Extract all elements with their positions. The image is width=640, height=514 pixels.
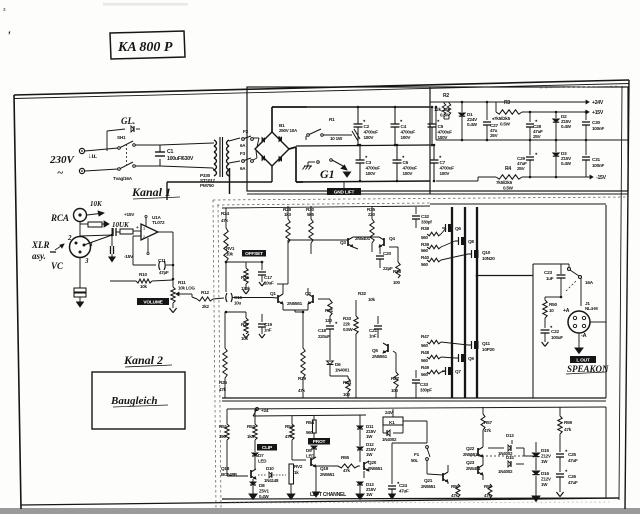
svg-text:asy.: asy. bbox=[32, 251, 46, 261]
svg-text:D16: D16 bbox=[541, 471, 549, 476]
wire offset node bbox=[225, 261, 228, 264]
svg-text:C25: C25 bbox=[568, 452, 576, 457]
wire C23 top bbox=[533, 263, 569, 265]
svg-text:R32: R32 bbox=[358, 291, 366, 296]
svg-text:C7: C7 bbox=[440, 160, 446, 165]
svg-text:Q5: Q5 bbox=[372, 348, 378, 353]
wire switch to C1 bbox=[135, 144, 160, 146]
fuse F output 16A bbox=[568, 264, 570, 267]
svg-text:↓u.: ↓u. bbox=[88, 152, 97, 160]
svg-text:10: 10 bbox=[549, 308, 554, 313]
wire bridge + output bbox=[271, 107, 273, 132]
svg-text:10k LOG: 10k LOG bbox=[178, 286, 196, 291]
svg-text:10k: 10k bbox=[140, 284, 148, 289]
svg-text:230V: 230V bbox=[49, 154, 76, 166]
zener diode D1 bbox=[461, 102, 463, 112]
capacitor C3 4700uF bbox=[359, 145, 361, 160]
wire vas column bbox=[371, 243, 373, 252]
speaker section box bbox=[532, 264, 534, 398]
wire xlr pin3 down bbox=[79, 258, 81, 288]
svg-text:10UK: 10UK bbox=[112, 221, 130, 229]
svg-text:10k: 10k bbox=[226, 252, 234, 257]
svg-text:C2: C2 bbox=[364, 124, 370, 129]
svg-text:3: 3 bbox=[143, 226, 145, 231]
wire +V bus bbox=[307, 106, 430, 108]
svg-text:4700uF: 4700uF bbox=[401, 130, 416, 135]
svg-text:R24: R24 bbox=[221, 211, 229, 216]
mosfet Q6 bbox=[448, 224, 453, 232]
svg-text:VOLUME: VOLUME bbox=[143, 300, 163, 306]
svg-text:Q4: Q4 bbox=[389, 236, 395, 241]
svg-text:22pF: 22pF bbox=[383, 266, 393, 271]
capacitor C30 bbox=[585, 112, 587, 120]
svg-text:R50: R50 bbox=[549, 302, 557, 307]
svg-text:Z5V1: Z5V1 bbox=[259, 489, 270, 494]
svg-text:D7: D7 bbox=[258, 453, 264, 458]
svg-text:RV2: RV2 bbox=[294, 464, 303, 469]
svg-text:D13: D13 bbox=[506, 433, 514, 438]
svg-text:Q20: Q20 bbox=[368, 460, 377, 465]
svg-text:47k: 47k bbox=[484, 428, 492, 433]
svg-text:-A: -A bbox=[581, 333, 587, 339]
wire R35 column bbox=[355, 334, 357, 398]
svg-text:220uF: 220uF bbox=[318, 334, 330, 339]
svg-text:VC: VC bbox=[51, 261, 64, 271]
svg-text:C23: C23 bbox=[544, 270, 552, 275]
svg-text:R2: R2 bbox=[443, 93, 449, 99]
svg-text:47k: 47k bbox=[343, 468, 351, 473]
rail output column 1 bbox=[451, 207, 453, 398]
rail +24V bbox=[583, 101, 589, 103]
wire amp bottom rail bbox=[222, 397, 606, 399]
svg-text:RCA: RCA bbox=[50, 213, 69, 223]
svg-text:C4: C4 bbox=[401, 124, 407, 129]
capacitor C4 4700uF bbox=[394, 107, 396, 124]
svg-text:R33: R33 bbox=[343, 316, 351, 321]
svg-text:10N20: 10N20 bbox=[482, 256, 495, 261]
label PROT bbox=[308, 438, 330, 445]
svg-text:RV1: RV1 bbox=[226, 246, 235, 251]
power supply enclosure box bbox=[247, 87, 628, 191]
svg-text:C30: C30 bbox=[592, 120, 600, 125]
svg-text:': ' bbox=[7, 28, 11, 43]
svg-text:R3: R3 bbox=[504, 100, 510, 106]
zener diode D3 bbox=[555, 140, 557, 152]
svg-text:3: 3 bbox=[84, 257, 89, 265]
wire protection to zeners bbox=[524, 455, 536, 457]
svg-text:2N5551: 2N5551 bbox=[421, 484, 436, 489]
svg-text:330pf: 330pf bbox=[421, 220, 432, 225]
svg-text:C24: C24 bbox=[399, 483, 407, 488]
wire bridge - output bbox=[289, 147, 296, 149]
svg-text:R49: R49 bbox=[421, 365, 429, 370]
wire secondary top bbox=[229, 138, 240, 141]
svg-text:Q3: Q3 bbox=[340, 240, 346, 245]
svg-text:Q9: Q9 bbox=[468, 356, 474, 361]
rail -15V bbox=[587, 176, 593, 178]
wire diff pair emitters bbox=[282, 304, 284, 310]
label VOLUME bbox=[137, 298, 169, 305]
svg-text:47uF: 47uF bbox=[568, 458, 578, 463]
svg-text:47k: 47k bbox=[484, 493, 492, 498]
svg-text:R40: R40 bbox=[421, 255, 429, 260]
svg-text:0.5W: 0.5W bbox=[343, 327, 354, 332]
svg-text:47k: 47k bbox=[451, 493, 459, 498]
svg-text:R31: R31 bbox=[325, 308, 333, 313]
svg-text:4700uF: 4700uF bbox=[440, 166, 455, 171]
svg-text:G1: G1 bbox=[320, 167, 335, 181]
Kanal 2 box Baugleich bbox=[92, 372, 185, 429]
svg-text:PM750: PM750 bbox=[200, 183, 214, 188]
svg-text:C5: C5 bbox=[438, 124, 444, 129]
svg-text:2N5551: 2N5551 bbox=[320, 472, 335, 477]
capacitor C24 47uF bbox=[391, 443, 393, 484]
svg-text:1k8: 1k8 bbox=[247, 434, 255, 439]
svg-text:22k: 22k bbox=[343, 322, 351, 327]
svg-text:7k5//2k5: 7k5//2k5 bbox=[496, 180, 513, 185]
wire bridge AC in bbox=[257, 138, 259, 147]
svg-text:Baugleich: Baugleich bbox=[110, 395, 157, 407]
svg-text:4700uF: 4700uF bbox=[403, 166, 418, 171]
svg-text:25V: 25V bbox=[517, 166, 526, 171]
svg-text:47k: 47k bbox=[564, 427, 572, 432]
svg-text:R12: R12 bbox=[201, 290, 209, 295]
mosfet Q8 bbox=[461, 237, 466, 245]
svg-text:L OUT: L OUT bbox=[576, 358, 590, 364]
svg-text:47uF: 47uF bbox=[568, 480, 578, 485]
svg-text:C1: C1 bbox=[167, 149, 173, 155]
svg-text:XLR: XLR bbox=[31, 240, 50, 250]
label GND LIFT bbox=[327, 188, 361, 195]
svg-text:C31: C31 bbox=[592, 157, 600, 162]
svg-text:Q19: Q19 bbox=[320, 466, 329, 471]
svg-text:R39: R39 bbox=[421, 242, 429, 247]
svg-text:~: ~ bbox=[57, 167, 64, 179]
svg-text:0.4W: 0.4W bbox=[561, 124, 572, 129]
svg-text:250V 10A: 250V 10A bbox=[279, 128, 298, 133]
svg-text:R1: R1 bbox=[329, 117, 335, 122]
wire dashed zener link bbox=[470, 455, 524, 457]
svg-text:100: 100 bbox=[391, 388, 399, 393]
capacitor C29 bbox=[529, 140, 531, 155]
svg-text:560: 560 bbox=[421, 248, 429, 253]
wire feedback bbox=[133, 235, 141, 237]
svg-text:C20: C20 bbox=[383, 251, 391, 256]
svg-text:1W: 1W bbox=[366, 492, 373, 497]
svg-text:R54: R54 bbox=[306, 420, 314, 425]
svg-text:1W: 1W bbox=[366, 452, 373, 457]
svg-text:0.4W: 0.4W bbox=[561, 161, 572, 166]
svg-text:1nF: 1nF bbox=[264, 328, 272, 333]
capacitor C7 4700uF bbox=[433, 145, 435, 160]
svg-text:K1: K1 bbox=[389, 420, 395, 425]
svg-text:Tvag/16A: Tvag/16A bbox=[113, 176, 133, 181]
svg-text:100V: 100V bbox=[364, 135, 375, 140]
svg-text:1W: 1W bbox=[541, 482, 548, 487]
svg-text:R59: R59 bbox=[564, 420, 572, 425]
svg-text:2N5551: 2N5551 bbox=[368, 466, 383, 471]
svg-text:25V: 25V bbox=[490, 133, 499, 138]
svg-text:Q11: Q11 bbox=[482, 341, 490, 346]
svg-text:Kanal 2: Kanal 2 bbox=[123, 353, 163, 367]
svg-text:F1: F1 bbox=[414, 452, 420, 457]
svg-text:-15V: -15V bbox=[596, 175, 607, 181]
mosfet Q11 10P20 bbox=[474, 341, 479, 349]
wire bridge 0V bbox=[271, 166, 273, 182]
capacitor C25 47uF bbox=[556, 453, 564, 455]
capacitor C27 bbox=[486, 102, 488, 120]
svg-text:10K: 10K bbox=[90, 200, 103, 208]
svg-text:C26: C26 bbox=[568, 474, 576, 479]
svg-text:GND LIFT: GND LIFT bbox=[334, 190, 355, 196]
svg-text:0.5W: 0.5W bbox=[500, 122, 511, 127]
svg-text:R25: R25 bbox=[219, 380, 227, 385]
svg-text:+24V: +24V bbox=[592, 100, 604, 106]
svg-text:1N4148: 1N4148 bbox=[264, 478, 279, 483]
wire output node bbox=[477, 275, 533, 277]
svg-text:47k: 47k bbox=[221, 218, 229, 223]
capacitor shunt input bbox=[111, 242, 113, 246]
mosfet Q10 10N20 bbox=[474, 250, 479, 258]
wire input node bbox=[84, 235, 112, 245]
transformer T1 P330 ST1017 PM750 bbox=[214, 140, 217, 146]
diode D6 1N4001 bbox=[329, 338, 331, 360]
svg-text:2: 2 bbox=[143, 234, 145, 239]
svg-text:100V: 100V bbox=[366, 171, 377, 176]
svg-text:R47: R47 bbox=[421, 334, 429, 339]
svg-text:560: 560 bbox=[421, 262, 429, 267]
wire mains L bbox=[85, 148, 118, 151]
svg-text:TL072: TL072 bbox=[152, 220, 165, 225]
wire bottom right vertical bbox=[605, 407, 607, 498]
svg-text:100V: 100V bbox=[403, 171, 414, 176]
wire secondary bottom down bbox=[229, 168, 231, 194]
svg-text:330pF: 330pF bbox=[420, 388, 432, 393]
svg-text:50L: 50L bbox=[411, 458, 419, 463]
svg-text:560: 560 bbox=[421, 235, 429, 240]
svg-text:47k: 47k bbox=[298, 388, 306, 393]
svg-text:47uF: 47uF bbox=[399, 489, 409, 494]
svg-text:Q22: Q22 bbox=[466, 446, 475, 451]
zener diode D2 bbox=[555, 112, 557, 118]
capacitor C22 100uF bbox=[544, 318, 546, 328]
svg-text:KA 800 P: KA 800 P bbox=[117, 40, 173, 55]
svg-text:4700uF: 4700uF bbox=[438, 130, 453, 135]
svg-text:LEFT CHANNEL: LEFT CHANNEL bbox=[310, 492, 346, 498]
svg-text:2k2: 2k2 bbox=[202, 304, 210, 309]
svg-text:120: 120 bbox=[325, 318, 333, 323]
svg-text:1nF: 1nF bbox=[369, 334, 377, 339]
wire 0V mid rail bbox=[436, 139, 628, 141]
svg-text:100uF/630V: 100uF/630V bbox=[167, 156, 194, 162]
wire +24 sub rail bbox=[253, 415, 366, 416]
capacitor C26 47uF bbox=[556, 473, 564, 475]
svg-text:Q1: Q1 bbox=[270, 291, 276, 296]
capacitor C1 bbox=[159, 145, 161, 152]
svg-text:10k: 10k bbox=[368, 297, 376, 302]
svg-text:1k: 1k bbox=[294, 470, 299, 475]
svg-text:4700uF: 4700uF bbox=[364, 130, 379, 135]
svg-text:+15V: +15V bbox=[592, 110, 604, 116]
capacitor C5 4700uF bbox=[431, 107, 433, 124]
svg-text:R38: R38 bbox=[421, 226, 429, 231]
svg-text:D10: D10 bbox=[266, 466, 274, 471]
svg-text:1uF: 1uF bbox=[546, 276, 554, 281]
wire speakon ground bbox=[578, 333, 580, 348]
svg-text:47pF: 47pF bbox=[159, 270, 169, 275]
svg-text:390: 390 bbox=[219, 434, 227, 439]
svg-text:100uF: 100uF bbox=[551, 335, 563, 340]
svg-text:100: 100 bbox=[393, 280, 401, 285]
svg-text:C18: C18 bbox=[318, 328, 326, 333]
wire op-amp output bbox=[158, 231, 173, 233]
svg-text:560: 560 bbox=[421, 372, 429, 377]
svg-text:0.4W: 0.4W bbox=[259, 494, 270, 499]
svg-text:1W: 1W bbox=[366, 434, 373, 439]
ground arrow C17 bbox=[243, 290, 246, 294]
svg-text:C22: C22 bbox=[551, 329, 559, 334]
svg-text:Q8: Q8 bbox=[468, 239, 474, 244]
ground arrow xlr bbox=[77, 302, 84, 307]
title box KA 800 P bbox=[110, 31, 185, 59]
svg-text:F2: F2 bbox=[243, 129, 249, 134]
svg-text:100V: 100V bbox=[438, 135, 449, 140]
diode D14 1N4002 bbox=[387, 430, 390, 436]
dotted scan line bottom bbox=[230, 502, 610, 503]
svg-text:Q23: Q23 bbox=[466, 460, 475, 465]
svg-text:560: 560 bbox=[306, 430, 314, 435]
svg-text:+15V: +15V bbox=[124, 212, 135, 217]
svg-text:Q18: Q18 bbox=[221, 466, 230, 471]
svg-text:100nF: 100nF bbox=[592, 126, 604, 131]
svg-text:GL.: GL. bbox=[121, 116, 135, 126]
svg-text:SH1: SH1 bbox=[117, 135, 126, 140]
svg-text:1W: 1W bbox=[541, 459, 548, 464]
svg-text:+A: +A bbox=[563, 308, 570, 314]
svg-text:LED: LED bbox=[258, 459, 267, 464]
wire to speakon bbox=[580, 278, 582, 306]
svg-text:C33: C33 bbox=[420, 382, 428, 387]
svg-text:R11: R11 bbox=[178, 280, 186, 285]
wire Q20 emitter bbox=[363, 471, 365, 478]
terminal 230V line bbox=[79, 148, 84, 153]
svg-text:Q7: Q7 bbox=[455, 369, 461, 374]
svg-text:10uF: 10uF bbox=[264, 281, 274, 286]
svg-text:R57: R57 bbox=[484, 420, 492, 425]
svg-text:D8: D8 bbox=[259, 483, 265, 488]
svg-text:2N5551: 2N5551 bbox=[372, 354, 388, 359]
svg-text:16A: 16A bbox=[585, 280, 594, 285]
rail +15V bbox=[583, 111, 589, 113]
capacitor C6 4700uF bbox=[396, 145, 398, 160]
wire C1 to transformer bbox=[160, 143, 213, 145]
svg-text:CLIP: CLIP bbox=[262, 445, 273, 451]
svg-text:1N4002: 1N4002 bbox=[382, 437, 397, 442]
svg-text:10u: 10u bbox=[234, 301, 242, 306]
svg-text:Q6: Q6 bbox=[455, 226, 461, 231]
capacitor C2 4700uF bbox=[357, 107, 359, 124]
electrolytic cap input ground bbox=[74, 288, 86, 292]
wire Q2 base bbox=[307, 288, 309, 294]
svg-text:100: 100 bbox=[343, 392, 351, 397]
ground lift chassis G1 bbox=[304, 165, 312, 167]
svg-text:NL4-M: NL4-M bbox=[585, 306, 598, 311]
svg-text:4700uF: 4700uF bbox=[366, 166, 381, 171]
svg-text:0.4W: 0.4W bbox=[467, 122, 478, 127]
svg-text:2N5551: 2N5551 bbox=[287, 301, 303, 306]
channel dashed border bbox=[213, 197, 628, 200]
svg-text:10P20: 10P20 bbox=[482, 347, 495, 352]
mosfet Q7 bbox=[448, 367, 453, 375]
scanner edge band bottom bbox=[0, 508, 640, 514]
svg-text:Kanal 1: Kanal 1 bbox=[131, 185, 171, 199]
ground arrow input bbox=[109, 257, 115, 262]
xlr pin arrow bbox=[55, 244, 64, 250]
wire relay to C24 bbox=[392, 442, 427, 444]
svg-text:25V: 25V bbox=[533, 134, 542, 139]
wire -V bus bbox=[296, 181, 430, 182]
ground lift switch bbox=[317, 161, 320, 164]
svg-text:7k5//2k5: 7k5//2k5 bbox=[494, 116, 511, 121]
svg-text:1N4001: 1N4001 bbox=[335, 368, 350, 373]
svg-text:C17: C17 bbox=[264, 275, 272, 280]
ground arrow at lift bbox=[332, 160, 343, 166]
svg-text:100V: 100V bbox=[440, 171, 451, 176]
wire K1 feed bbox=[315, 467, 317, 492]
svg-text:100V: 100V bbox=[401, 135, 412, 140]
wire mains N bbox=[85, 169, 118, 171]
capacitor C28 bbox=[529, 112, 531, 122]
svg-text:2: 2 bbox=[67, 234, 72, 242]
svg-text:Q21: Q21 bbox=[424, 478, 433, 483]
svg-text:BC548B: BC548B bbox=[221, 472, 238, 477]
mosfet Q9 bbox=[461, 354, 466, 362]
terminal 230V neutral bbox=[79, 168, 84, 173]
schematic outer frame bbox=[14, 80, 629, 95]
svg-text:100nF: 100nF bbox=[592, 163, 604, 168]
svg-text:-15V: -15V bbox=[124, 254, 134, 259]
ground arrow volume bbox=[169, 308, 173, 313]
wire 0V bus bbox=[296, 145, 430, 146]
svg-text:10 1W: 10 1W bbox=[330, 136, 343, 141]
svg-text:R29: R29 bbox=[298, 376, 306, 381]
svg-text:1N4002: 1N4002 bbox=[498, 469, 513, 474]
svg-text:560: 560 bbox=[421, 343, 429, 348]
rail output column 2 bbox=[464, 207, 466, 398]
svg-text:Q10: Q10 bbox=[482, 250, 491, 255]
svg-text:OFFSET: OFFSET bbox=[245, 251, 263, 257]
svg-text:Z12V: Z12V bbox=[541, 477, 551, 482]
wire +rail amp top bbox=[222, 206, 430, 208]
svg-text:C6: C6 bbox=[403, 160, 409, 165]
svg-text:0.5W: 0.5W bbox=[503, 186, 514, 191]
svg-text:24V: 24V bbox=[385, 410, 394, 415]
label CLIP bbox=[257, 444, 277, 451]
svg-text:R10: R10 bbox=[139, 272, 147, 277]
svg-text:D15: D15 bbox=[541, 448, 549, 453]
svg-text:47k: 47k bbox=[285, 434, 293, 439]
svg-text:R48: R48 bbox=[421, 350, 429, 355]
resistor R50 1R bbox=[544, 297, 546, 300]
svg-text:560: 560 bbox=[421, 358, 429, 363]
capacitor C31 bbox=[585, 140, 587, 155]
svg-text:R55: R55 bbox=[341, 455, 349, 460]
power sub box regulator bbox=[429, 87, 431, 194]
svg-text:C3: C3 bbox=[366, 160, 372, 165]
svg-text:PROT: PROT bbox=[313, 439, 326, 445]
scan smudge top bbox=[103, 3, 188, 6]
svg-text:D6: D6 bbox=[335, 362, 341, 367]
